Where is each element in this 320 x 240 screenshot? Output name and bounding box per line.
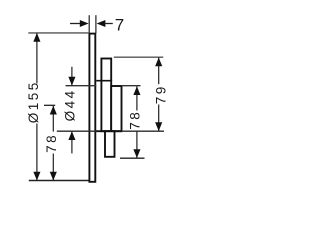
plate bottom extension line — [29, 180, 90, 182]
wall plate (side view) — [89, 34, 95, 182]
dimension 79 top extension line — [114, 56, 164, 58]
dimension Ø44 top extension line — [66, 85, 97, 87]
svg-text:78: 78 — [128, 110, 143, 130]
dimension 7 left tail — [70, 23, 81, 25]
svg-text:Ø155: Ø155 — [26, 80, 41, 123]
sleeve — [101, 59, 111, 132]
knob bottom edge thick — [96, 130, 121, 132]
svg-text:78: 78 — [44, 133, 59, 153]
dimension Ø155 arrow down — [33, 172, 40, 181]
dimension 7 arrow left — [97, 20, 106, 27]
dimension 78 left arrow up — [50, 106, 57, 115]
svg-text:79: 79 — [154, 84, 169, 104]
dimension 78 right arrow up — [133, 86, 140, 95]
dimension 78 right line segments — [136, 86, 138, 158]
dimension 7 extension lines — [89, 15, 96, 33]
sleeve flange ledge — [96, 80, 112, 82]
dimension 7 right tail — [105, 23, 113, 25]
dimension 78 right bottom extension line — [120, 157, 145, 159]
handle knob — [111, 86, 121, 131]
dimension Ø44 arrow up (tip at 131.2) — [68, 131, 75, 140]
dimension 79 line segments — [158, 58, 160, 132]
plate top extension line — [28, 32, 88, 34]
dimension Ø155 arrow up — [33, 33, 40, 42]
knob bottom / 79 bottom extension line — [57, 130, 164, 132]
dimension 78 right top extension line — [122, 85, 141, 87]
dimension Ø44 arrow down (tip at 85.7) — [68, 77, 75, 86]
dimension 78 left reference tick — [44, 104, 55, 106]
dimension 7 arrow right — [80, 20, 89, 27]
svg-text:7: 7 — [115, 15, 124, 34]
dimension 78 left line segments — [52, 106, 54, 181]
dimension Ø44 upper line — [71, 67, 73, 86]
svg-text:Ø44: Ø44 — [63, 88, 78, 121]
dimension 78 right arrow down — [133, 149, 140, 158]
dimension Ø155 line segments — [36, 33, 38, 180]
dimension 78 left arrow down — [50, 172, 57, 181]
function block — [105, 131, 115, 157]
dimension 79 arrow up — [155, 58, 162, 67]
dimension Ø44 lower line — [71, 131, 73, 153]
dimension 79 arrow down — [155, 122, 162, 131]
